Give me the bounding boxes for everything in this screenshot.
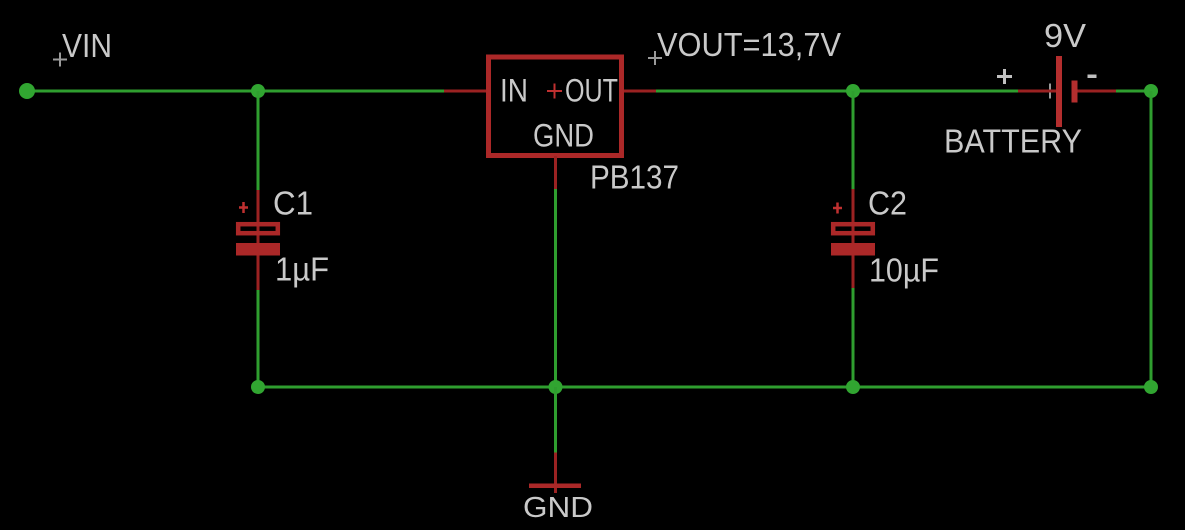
pin stub battery - (red) bbox=[1078, 90, 1117, 93]
wire VOUT: OUT pin to battery bbox=[656, 90, 1018, 93]
capacitor C2 top plate bbox=[833, 224, 873, 233]
battery BAT1 positive plate bbox=[1056, 56, 1062, 127]
svg-text:IN: IN bbox=[500, 73, 528, 109]
node junction at C1 top bbox=[251, 84, 265, 98]
battery BAT1 origin tick bbox=[1049, 84, 1051, 99]
pin stub PB137 OUT (red) bbox=[624, 90, 656, 93]
node VIN terminal dot bbox=[19, 83, 35, 99]
IC U1 origin cross bbox=[547, 84, 562, 99]
svg-text:9V: 9V bbox=[1044, 17, 1086, 54]
node corner top right bbox=[1144, 84, 1158, 98]
pin stub PB137 IN (red) bbox=[444, 90, 486, 93]
svg-text:C2: C2 bbox=[868, 185, 907, 222]
capacitor C1 top plate bbox=[238, 224, 278, 233]
svg-text:OUT: OUT bbox=[565, 73, 618, 109]
svg-text:BATTERY: BATTERY bbox=[944, 123, 1082, 160]
capacitor C1 polarity mark bbox=[239, 202, 248, 213]
node junction bottom C2 bbox=[846, 380, 860, 394]
svg-text:1µF: 1µF bbox=[275, 251, 329, 288]
label battery plus sign bbox=[997, 69, 1012, 84]
wire C2 vertical green lower bbox=[852, 288, 855, 387]
node junction bottom right corner bbox=[1144, 380, 1158, 394]
wire right vertical bbox=[1150, 91, 1153, 387]
node junction bottom C1 bbox=[251, 380, 265, 394]
pin stub battery + (red) bbox=[1018, 90, 1056, 93]
pin stub GND symbol (red) bbox=[554, 453, 557, 494]
wire C1 vertical green lower bbox=[257, 290, 260, 387]
battery BAT1 negative plate bbox=[1072, 81, 1078, 103]
wire VIN: left terminal to PB137 IN pin bbox=[27, 90, 445, 93]
svg-text:VIN: VIN bbox=[62, 27, 112, 64]
svg-text:GND: GND bbox=[533, 118, 594, 154]
svg-text:VOUT=13,7V: VOUT=13,7V bbox=[657, 26, 841, 63]
wire GND symbol lead green bbox=[554, 387, 557, 453]
svg-text:10µF: 10µF bbox=[869, 252, 939, 289]
node junction at C2 top bbox=[846, 84, 860, 98]
pin stub PB137 GND (red) bbox=[554, 156, 557, 189]
wire C2 vertical green upper bbox=[852, 91, 855, 189]
node VOUT label cross bbox=[648, 51, 662, 65]
capacitor C1 bottom plate bbox=[236, 243, 280, 256]
capacitor C2 bottom plate bbox=[831, 243, 875, 256]
pin stub C2 (red) bbox=[852, 189, 855, 288]
ground symbol bar bbox=[529, 484, 581, 489]
wire bottom rail bbox=[258, 386, 1151, 389]
node VIN label cross bbox=[53, 53, 67, 67]
svg-text:PB137: PB137 bbox=[590, 159, 679, 196]
node junction bottom GND bbox=[549, 380, 563, 394]
label battery minus sign bbox=[1088, 75, 1097, 79]
svg-text:C1: C1 bbox=[273, 185, 313, 222]
pin stub C1 (red) bbox=[257, 190, 260, 290]
svg-text:GND: GND bbox=[523, 492, 593, 524]
wire GND net vertical green to bottom rail bbox=[554, 189, 557, 387]
wire C1 vertical green upper bbox=[257, 91, 260, 190]
capacitor C2 polarity mark bbox=[833, 203, 842, 214]
IC U1 PB137 body bbox=[489, 57, 622, 156]
wire battery to right corner bbox=[1116, 90, 1151, 93]
